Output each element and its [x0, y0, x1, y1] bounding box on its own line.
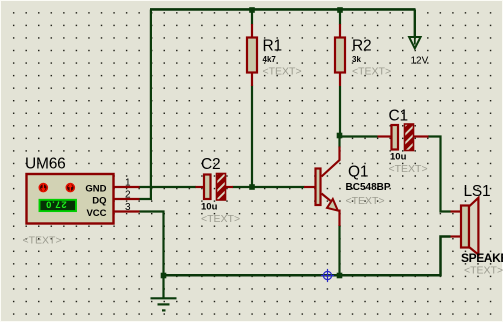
origin marker (blue crosshair) — [321, 269, 334, 282]
junction node (top rail / R1) — [249, 7, 255, 13]
svg-text:<TEXT>: <TEXT> — [346, 195, 385, 207]
wire collector junction to C1 — [340, 135, 378, 137]
transistor Q1 — [304, 147, 340, 227]
svg-text:2: 2 — [125, 190, 131, 201]
UM66 pin 1 (GND) — [114, 186, 140, 188]
wire emitter to bottom rail — [338, 225, 340, 276]
junction node (top rail / R2) — [337, 7, 343, 13]
svg-text:BC548BP: BC548BP — [346, 182, 391, 193]
wire bottom rail — [164, 237, 451, 276]
UM66 pin 3 (VCC) — [114, 210, 140, 212]
svg-text:3k: 3k — [352, 55, 361, 64]
wire R1 top — [251, 10, 253, 25]
wire UM66 pin3 to ground and bottom rail — [140, 212, 164, 298]
UM66 indicator LED right — [66, 184, 74, 192]
svg-text:R2: R2 — [352, 38, 371, 55]
svg-text:SPEAKER: SPEAKER — [461, 251, 503, 265]
wire R2 bottom to collector junction — [339, 86, 341, 137]
wire R2 top — [339, 10, 341, 25]
svg-text:Q1: Q1 — [348, 164, 368, 181]
wire top rail — [150, 8, 416, 11]
svg-text:UM66: UM66 — [25, 156, 66, 173]
junction node (R2 / collector / C1) — [337, 133, 343, 139]
svg-text:1: 1 — [125, 178, 131, 189]
capacitor C2 — [196, 174, 234, 201]
svg-text:C2: C2 — [201, 156, 220, 173]
svg-text:27.0: 27.0 — [45, 198, 66, 209]
svg-text:R1: R1 — [263, 38, 282, 55]
svg-text:<TEXT>: <TEXT> — [23, 235, 62, 247]
wire collector vertical — [338, 137, 340, 148]
svg-text:10u: 10u — [201, 202, 218, 213]
UM66 display 270 — [40, 198, 77, 211]
speaker LS1 — [451, 198, 479, 255]
ground — [151, 298, 177, 310]
junction node (emitter / bottom rail) — [337, 273, 343, 279]
UM66 pin 2 (DQ) — [114, 198, 140, 200]
svg-text:<TEXT>: <TEXT> — [201, 213, 240, 225]
svg-text:<TEXT>: <TEXT> — [352, 66, 391, 78]
svg-text:4k7: 4k7 — [263, 55, 277, 64]
svg-text:<TEXT>: <TEXT> — [263, 66, 302, 78]
IC UM66 — [27, 174, 140, 224]
wire C1 right to speaker top — [428, 137, 451, 212]
junction node (R1 / base net) — [249, 184, 255, 190]
capacitor C1 — [378, 124, 429, 151]
svg-text:C1: C1 — [389, 108, 408, 125]
svg-text:VCC: VCC — [86, 208, 106, 219]
svg-text:DQ: DQ — [92, 196, 106, 207]
svg-text:LS1: LS1 — [464, 183, 491, 200]
junction node (ground / bottom rail) — [161, 273, 167, 279]
svg-text:<TEXT>: <TEXT> — [389, 163, 428, 175]
wire left vertical to UM66 pin 2 — [140, 10, 151, 200]
wire C2 right to Q1 base — [233, 186, 305, 188]
svg-text:GND: GND — [85, 184, 106, 195]
wire UM66 pin1 to C2 — [140, 186, 197, 188]
svg-text:<TEXT>: <TEXT> — [464, 265, 503, 277]
resistor R1 — [247, 24, 257, 86]
UM66 indicator LED left — [39, 184, 47, 192]
svg-text:12V: 12V — [411, 56, 429, 67]
resistor R2 — [335, 24, 345, 86]
svg-text:3: 3 — [125, 202, 131, 213]
svg-text:10u: 10u — [390, 152, 407, 163]
wire R1 bottom to base net — [251, 86, 253, 188]
power 12V arrow — [409, 10, 421, 49]
